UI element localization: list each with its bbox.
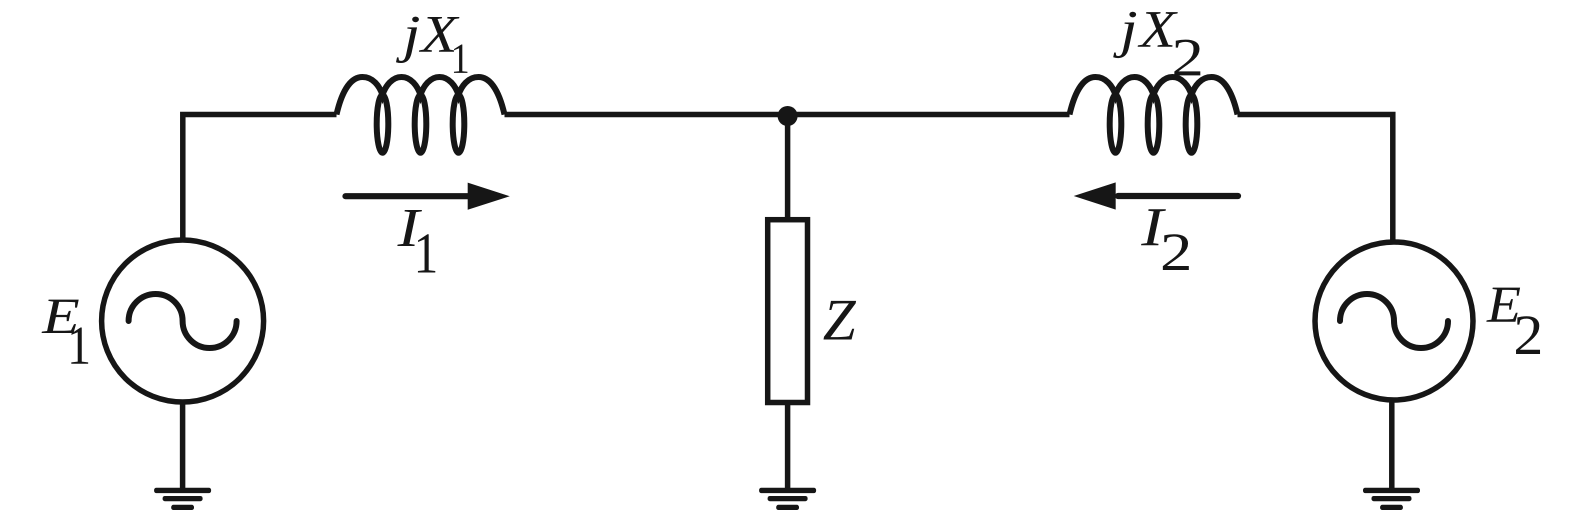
- source E2 (circle): [1315, 242, 1473, 400]
- node A junction dot: [778, 106, 798, 126]
- label E1: [42, 300, 89, 364]
- arrow I2 (current direction, leftward): [1118, 193, 1238, 199]
- label jX2: [1113, 12, 1200, 76]
- inductor L1 (jX1): [337, 77, 505, 153]
- ground below Z: [759, 488, 816, 510]
- ground below E2: [1363, 488, 1420, 510]
- source E1 (circle): [102, 240, 264, 402]
- label Z: [824, 301, 857, 340]
- label I2: [1141, 209, 1189, 270]
- wire: E1 to ground: [180, 402, 186, 489]
- wire: E2 to ground: [1389, 400, 1395, 489]
- ground below E1: [154, 488, 211, 510]
- wire: inductor L2 to E2 top lead: [1238, 115, 1393, 243]
- inductor L2 (jX2): [1070, 77, 1238, 153]
- source E1 sine symbol: [129, 294, 237, 348]
- arrowhead I2: [1074, 182, 1116, 209]
- label I1: [397, 210, 435, 273]
- arrowhead I1: [468, 183, 510, 210]
- source E2 sine symbol: [1340, 294, 1448, 348]
- wire: inductor L1 to node A: [505, 112, 788, 118]
- impedance Z (rectangle): [768, 220, 808, 403]
- arrow I1 (current direction, rightward): [346, 193, 471, 199]
- wire: node A to inductor L2: [788, 112, 1070, 118]
- wire: E1 top lead to inductor L1: [183, 115, 337, 241]
- wire: Z to ground: [785, 403, 791, 490]
- wire: node A down to impedance Z: [785, 115, 791, 220]
- label E2: [1486, 288, 1540, 354]
- label jX1: [396, 17, 467, 73]
